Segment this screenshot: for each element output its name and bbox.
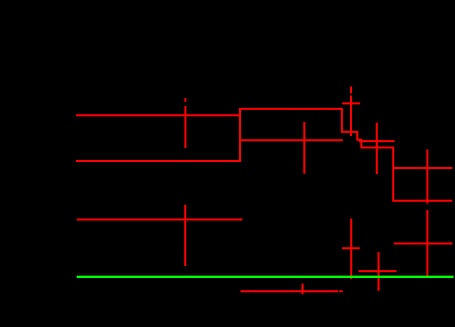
data cross D2 horizontal bar — [241, 139, 343, 141]
data cross D5 error bar — [426, 150, 428, 204]
residual cross R4 horizontal bar — [359, 270, 397, 272]
data cross D5 horizontal bar — [393, 167, 452, 169]
residual cross R3 horizontal bar — [342, 247, 360, 249]
data cross D3 horizontal bar — [342, 102, 360, 104]
residual cross R1 error bar — [184, 205, 186, 266]
model stepped line — [76, 109, 452, 201]
residual cross R3 error bar — [350, 219, 352, 280]
residual cross R5 horizontal bar — [394, 243, 453, 245]
data cross D4 error bar — [376, 123, 378, 175]
data cross D4 horizontal bar — [359, 140, 395, 142]
residual cross R4 error bar — [378, 252, 380, 291]
data cross D1 error bar — [184, 98, 186, 148]
residual cross R2 horizontal bar — [241, 290, 343, 292]
data cross D1 horizontal bar — [76, 114, 240, 116]
residual cross R5 error bar — [426, 210, 428, 276]
green model/unity line — [77, 276, 454, 278]
data cross D2 error bar — [303, 122, 305, 174]
data cross D3 error bar — [350, 87, 352, 137]
residual cross R1 horizontal bar — [77, 219, 243, 221]
residual cross R2 error bar — [302, 284, 304, 295]
